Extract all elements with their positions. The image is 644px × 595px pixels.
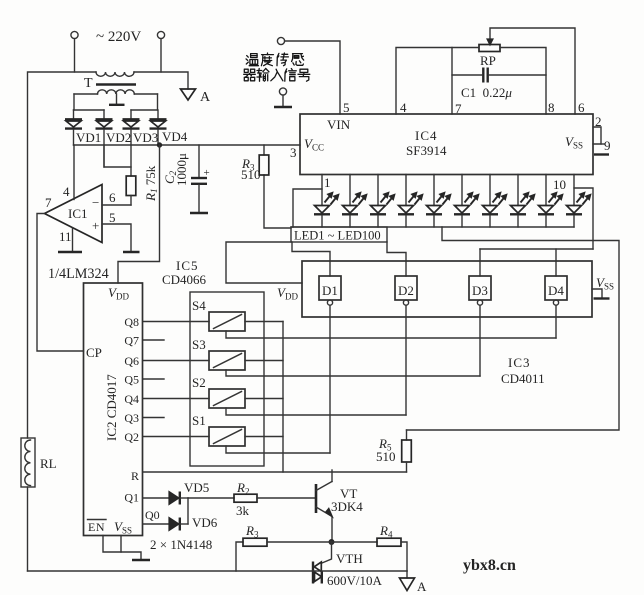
resistor R3 [259,145,269,175]
label IC4 [415,128,438,143]
resistor R1 [126,145,136,205]
label A (top) [200,90,211,105]
svg-text:2 × 1N4148: 2 × 1N4148 [150,537,212,552]
label R5 [378,436,392,453]
label IC5 [176,258,199,273]
LED LED1 [314,175,339,228]
label pin Q0 [145,508,160,522]
transformer T secondary winding [74,90,158,94]
svg-text:~ 220V: ~ 220V [96,29,141,45]
label pin Q7 [124,334,139,348]
svg-text:Q5: Q5 [124,373,139,387]
gate D1 [319,276,341,305]
ground: sensor return bar [274,106,292,108]
wire: IC1 pin 4 supply [73,145,75,200]
node: junction dot on rail [157,143,161,147]
label pin 7 [45,195,52,210]
analog switch S4 [209,312,245,331]
svg-text:A: A [200,90,211,105]
svg-text:VSS: VSS [565,134,583,151]
gate D2 [395,276,417,305]
label R3 [241,156,255,173]
IC IC2 CD4017 box [84,283,143,536]
wire: RP wiper feedback to pin 6 [490,28,575,114]
label VD3 [133,130,158,145]
svg-text:VDD: VDD [277,285,298,302]
thyristor VTH [313,542,332,584]
ground: C2 [190,212,208,214]
label VDD (IC3) [277,285,298,302]
svg-text:IC3: IC3 [508,355,531,370]
op-amp IC1 [45,185,103,243]
label pin 5 (IC4) [343,100,350,115]
label VD1 [76,130,101,145]
ground: IC1 pin 11 [58,251,82,253]
label T [84,76,93,91]
label box LED1~LED100 [291,227,387,243]
label CD4066 [162,272,207,287]
wire: LED1 anode sense tap [293,189,322,227]
svg-text:RP: RP [480,53,496,68]
wire: D2 input [387,242,406,276]
svg-text:RL: RL [40,456,57,471]
label S4 [192,298,206,313]
svg-text:4: 4 [63,184,70,199]
diode VD2 [96,110,113,167]
wire: Q2 to S1 [143,436,209,438]
wire: Q6 to S3 [143,360,209,362]
svg-text:VCC: VCC [304,136,324,153]
resistor R3 (gate) [236,538,377,571]
wire: LED cathode bus [291,226,574,228]
resistor R2 [188,494,316,502]
wire: D1 output to S1 control [329,305,331,453]
wire: bus tap to R5 riser [407,227,620,430]
label pin Q2 [124,430,139,444]
svg-text:11: 11 [59,229,72,244]
wire: anode bus VD1-VD2 [74,109,105,111]
svg-text:R1 75k: R1 75k [143,165,159,202]
svg-text:Q4: Q4 [124,392,139,406]
svg-text:VD3: VD3 [133,130,158,145]
svg-text:510: 510 [376,449,396,464]
label 1/4LM324 [48,266,109,282]
wire: sensor to IC4 pin 5 [285,41,340,114]
svg-text:7: 7 [455,101,462,116]
wire: D2 output to S2 control [405,305,407,415]
svg-text:VIN: VIN [327,117,351,132]
label VTH [336,551,363,566]
svg-text:ybx8.cn: ybx8.cn [463,557,516,574]
svg-text:2: 2 [595,114,602,129]
wire: bottom return rail [28,570,408,572]
label pin 5 [109,210,116,225]
svg-text:CD4011: CD4011 [501,371,545,386]
svg-text:CD4066: CD4066 [162,272,207,287]
svg-text:8: 8 [548,100,555,115]
LED LED2 [342,175,367,228]
wire: VDD feed to IC3 [226,242,302,283]
label pin 7 (IC4) [455,101,462,116]
svg-text:R4: R4 [379,523,393,540]
svg-text:S3: S3 [192,337,206,352]
label S1 [192,413,206,428]
wire: secondary right lead [157,94,159,110]
capacitor C1 [452,68,546,83]
wire: left terminal to left rail corner [28,72,97,438]
label pin 11 [59,229,72,244]
label VD4 [162,129,188,144]
svg-text:Q0: Q0 [145,508,160,522]
wire: rectified supply rail [74,144,301,146]
label pin 8 (IC4) [548,100,555,115]
terminal: AC input left [71,31,78,72]
svg-text:D1: D1 [322,283,338,298]
diode VD6 [169,518,188,531]
label IC1 [68,206,88,221]
LED LED6 [454,175,479,228]
label 510 (R5) [376,449,396,464]
label pin 9 (IC4) [604,138,611,153]
wire: D3 output to S3 control [479,305,481,376]
svg-text:IC4: IC4 [415,128,438,143]
label pin R [131,469,139,483]
svg-text:T: T [84,76,93,91]
svg-text:D3: D3 [472,283,488,298]
potentiometer RP [479,39,500,52]
svg-text:Q6: Q6 [124,354,139,368]
label CP [86,345,102,360]
LED LED7 [482,175,507,228]
LED LED9 [538,175,563,228]
label pin 6 [109,190,116,205]
svg-text:IC2 CD4017: IC2 CD4017 [104,374,119,441]
svg-text:3DK4: 3DK4 [331,499,363,514]
wire: Q8 to S4 [143,321,209,323]
label pin 2 (IC4) [595,114,602,129]
svg-text:LED1 ~ LED100: LED1 ~ LED100 [294,229,381,243]
wire: EN / VSS to ground [103,536,141,560]
label pin 4 [63,184,70,199]
svg-text:A: A [417,579,427,594]
wire: D3/D4 input line [480,249,593,276]
svg-text:3: 3 [290,145,297,160]
wire: R3 bottom to bus [264,175,291,228]
terminal: AC input right [157,31,164,72]
svg-text:VDD: VDD [108,285,129,302]
svg-text:IC5: IC5 [176,258,199,273]
label pin Q1 [124,491,139,505]
label pin Q3 [124,411,139,425]
ground: IC4 pin 9 bar [594,153,609,155]
wire: RL to bottom rail [27,487,29,571]
svg-text:SF3914: SF3914 [406,143,447,158]
label: sensor caption line 1 (wen du chuan gan) [246,53,304,66]
svg-text:CP: CP [86,345,102,360]
label C2 1000u (rotated) [162,153,189,186]
svg-text:−: − [92,195,99,210]
wire: IC1 pin 11 to ground [72,228,74,252]
wire: D1 input [292,242,330,276]
wire: S2 control [226,408,406,415]
svg-text:Q2: Q2 [124,430,139,444]
svg-text:5: 5 [343,100,350,115]
wire: D4 output to S4 control [555,305,557,338]
label pin Q6 [124,354,139,368]
svg-text:7: 7 [45,195,52,210]
label pin 4 (IC4) [400,100,407,115]
wire: rail tap to R1 jog [104,145,131,167]
wire: S2 output to common bus [245,398,283,400]
label R3 (gate) [245,523,259,540]
label ~220V [96,29,141,45]
wire: S4 output to common bus [245,321,283,323]
svg-text:R3: R3 [245,523,259,540]
transformer core [96,83,136,85]
svg-text:1: 1 [324,175,331,190]
analog switch S3 [209,351,245,370]
wire: S3 control [226,370,480,376]
IC IC5 CD4066 box [190,292,264,466]
svg-text:6: 6 [578,100,585,115]
label VT [340,486,357,501]
label 2x1N4148 [150,537,212,552]
svg-text:Q7: Q7 [124,334,139,348]
IC4 pin 2 / 9 stubs [593,127,604,144]
svg-text:1/4LM324: 1/4LM324 [48,266,109,282]
LED LED8 [510,175,535,228]
ground: IC1 pin 5 [123,251,140,253]
wire: Q5 stub [143,378,164,380]
wire: IC1 pin 6 to R1 [102,204,131,206]
label R4 [379,523,393,540]
svg-text:Q1: Q1 [124,491,139,505]
analog switch S1 [209,427,245,446]
label VSS (IC3) [596,275,614,292]
label plus input [92,218,99,233]
svg-text:510: 510 [241,167,261,182]
IC IC3 CD4011 box [302,261,592,317]
svg-text:VD4: VD4 [162,129,188,144]
terminal: sensor return [279,88,286,106]
label 510 (R3) [241,167,261,182]
capacitor C2 [191,145,210,212]
label A (bottom) [417,579,427,594]
wire: pin 7 riser [451,48,453,115]
svg-text:600V/10A: 600V/10A [327,573,383,588]
svg-text:R: R [131,469,139,483]
label VCC [304,136,324,153]
svg-text:EN: EN [88,520,105,534]
wire: S1 control [226,446,330,453]
svg-text:VTH: VTH [336,551,363,566]
label minus input [92,195,99,210]
label 3DK4 [331,499,363,514]
label pin Q5 [124,373,139,387]
svg-text:VD1: VD1 [76,130,101,145]
svg-text:R2: R2 [236,480,249,497]
label RL [40,456,57,471]
svg-text:VD6: VD6 [192,515,218,530]
label RP [480,53,496,68]
wire: Q7 stub [143,339,164,341]
label VSS (IC2) [114,519,132,536]
wire: secondary left lead [73,94,75,110]
label R2 [236,480,249,497]
svg-text:S4: S4 [192,298,206,313]
svg-text:S2: S2 [192,375,206,390]
label VD5 [184,480,209,495]
ground symbol A (top) [181,89,196,100]
label: sensor caption line 2 (qi shu ru xin hao) [244,69,310,82]
wire: primary right lead to A node [134,72,188,89]
label pin 10 (IC4) [553,177,566,192]
label 600V/10A [327,573,383,588]
label IC3 [508,355,531,370]
watermark ybx8.cn [463,557,516,574]
svg-text:4: 4 [400,100,407,115]
wire: rail to IC2 VDD [118,145,160,283]
resistor R5 [402,430,412,472]
svg-text:+: + [204,167,210,179]
wire: IC1 pin 5 to ground [102,224,131,252]
wire: diode OR junction [187,498,189,524]
label VIN [327,117,351,132]
svg-text:Q8: Q8 [124,315,139,329]
wire: emitter drop [331,517,333,542]
label VD6 [192,515,218,530]
wire: switch common bus [282,322,284,473]
transistor VT 3DK4 [316,482,333,518]
svg-text:+: + [92,218,99,233]
svg-text:9: 9 [604,138,611,153]
label CD4011 [501,371,545,386]
wire: Q4 to S2 [143,398,209,400]
label 3k [236,503,250,518]
LED LED5 [426,175,451,228]
diode VD1 [65,110,82,145]
wire: anode bus VD3-VD4 [131,109,158,111]
ground symbol A (bottom) [400,571,415,591]
label IC2 CD4017 (rotated) [104,374,119,441]
analog switch S2 [209,389,245,408]
label S3 [192,337,206,352]
LED LED4 [398,175,423,228]
IC IC4 SF3914 box [300,114,593,175]
label pin 6 (IC4) [578,100,585,115]
LED LED10 [566,175,593,250]
ground: IC3 VSS [592,289,610,299]
label pin Q4 [124,392,139,406]
svg-text:IC1: IC1 [68,206,88,221]
svg-text:6: 6 [109,190,116,205]
wire: collector riser [331,470,333,482]
label VSS (IC4) [565,134,583,151]
wire: pin 4 to RP [396,48,479,115]
LED LED3 [370,175,395,228]
svg-text:5: 5 [109,210,116,225]
svg-text:10: 10 [553,177,566,192]
label C1 0.22u [461,85,512,100]
wire: RP to pin 8 [500,48,546,115]
label S2 [192,375,206,390]
diode VD5 [169,492,188,505]
svg-text:VD2: VD2 [106,130,131,145]
diode VD3 [123,110,140,145]
label VD2 [106,130,131,145]
wire: S3 output to common bus [245,360,283,362]
diode VD4 [150,110,167,145]
transformer T primary winding [96,72,134,76]
label pin Q8 [124,315,139,329]
label VDD (IC2) [108,285,129,302]
resistor R4 [377,538,407,571]
svg-text:VD5: VD5 [184,480,209,495]
svg-text:D4: D4 [548,283,564,298]
wire: IC1 output to CP of IC2 [37,214,84,352]
label SF3914 [406,143,447,158]
svg-text:3k: 3k [236,503,250,518]
svg-text:S1: S1 [192,413,206,428]
wire: S4 control [226,331,556,338]
wire: S1 output to common bus [245,436,283,438]
node: VT emitter junction [329,540,334,545]
ground: transformer center tap [109,94,125,105]
label pin 3 [290,145,297,160]
relay coil RL [21,438,35,487]
ground: IC2 [132,559,150,561]
svg-text:D2: D2 [398,283,414,298]
wire: Q1 to VD5 [143,497,169,499]
wire: Q0 to VD6 [143,523,169,525]
svg-text:1000μ: 1000μ [174,153,189,186]
wire: Q3 stub [143,417,164,419]
gate D3 [469,276,491,305]
gate D4 [545,276,567,305]
label pin 1 (IC4) [324,175,331,190]
svg-text:VSS: VSS [114,519,132,536]
label EN (active low) [88,520,107,535]
wire: reset line R to VT collector / R5 [143,471,407,473]
terminal: sensor signal [277,37,284,44]
svg-text:C1 0.22μ: C1 0.22μ [461,85,512,100]
svg-text:Q3: Q3 [124,411,139,425]
label R1 75k (rotated) [143,165,159,202]
